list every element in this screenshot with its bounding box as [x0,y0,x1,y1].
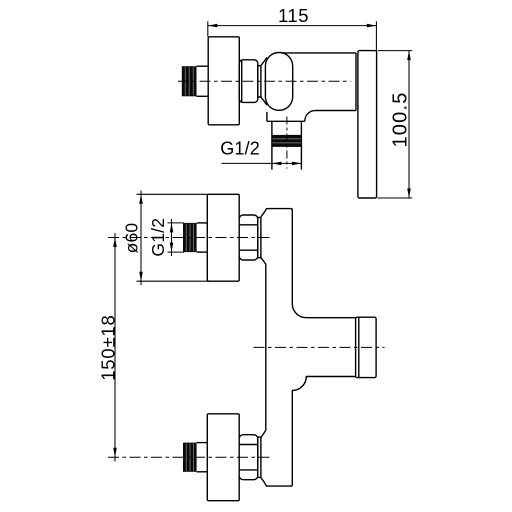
svg-text:G1/2: G1/2 [220,138,260,158]
dim 150+-18: dimension line [114,233,116,462]
side view: body top line [281,52,356,54]
dim G1/2 side view: left arrowhead [272,162,282,166]
front view: top union centerline [108,237,272,239]
dim 115: left extension line [207,21,209,36]
dim 100.5: bottom arrowhead [407,189,411,199]
dim G1/2 front view: bottom arrowhead [170,243,174,253]
side view: horizontal centerline [178,80,351,82]
svg-text:ø60: ø60 [122,223,142,254]
side view: inlet pipe [197,66,209,96]
side view: outlet boss bottom [267,120,305,122]
dim G1/2 side view: right arrowhead [292,162,302,166]
svg-text:115: 115 [278,5,309,26]
front view: flare above bottom union [261,430,266,437]
front view top union: flange disc [207,194,239,281]
front view bottom union: collar ring [258,437,261,477]
dim o60: bottom extension line [137,280,210,282]
dim G1/2 front view: top arrowhead [170,223,174,233]
dim 115: right extension line [375,21,377,50]
front view: main horizontal centerline [254,346,385,348]
side view: flare top [261,57,267,65]
dim 100.5: dimension line [408,51,410,198]
dim 115: dimension line [208,25,376,27]
dim 100.5: top extension line [378,50,413,52]
dim 100.5: top arrowhead [407,51,411,61]
dim o60: top arrowhead [139,194,143,204]
front view bottom union: hex nut [239,435,258,480]
front view bottom union: pipe [197,443,208,472]
front view: knob inner line [358,317,360,377]
dim G1/2 front view: dimension line [171,219,173,256]
side view: cartridge capsule [265,53,292,111]
side view: body bottom line [315,110,356,112]
side view: collar ring [258,66,261,97]
front view: body column and arm outline [261,209,356,318]
dim 115: left arrowhead [208,24,218,28]
front view top union: hex nut [239,215,258,260]
side view: hex nut [239,60,257,103]
svg-text:100.5: 100.5 [390,91,412,147]
side view: outlet cylinder left wall [271,121,273,169]
front view: column left edge [265,264,267,430]
dim G1/2 side view: leader line [222,162,302,164]
front view bottom union: flange disc [207,414,239,501]
side view: body right edge [355,53,357,111]
front view: knob (handle end) [356,317,377,377]
dim 100.5: bottom extension line [378,197,413,199]
front view bottom union: thread (black) [183,443,197,472]
side view: handle plate [358,51,377,198]
dim o60: dimension line [140,191,142,286]
side view: inlet thread (black) [182,66,197,96]
svg-text:150±18: 150±18 [97,314,118,380]
front view: flare below top union [261,258,266,265]
dim G1/2 front view: top extension line [168,222,185,224]
side view: wall flange disc [208,37,239,125]
dim 150+-18: bottom arrowhead [113,448,117,458]
dim 150+-18: top arrowhead [113,238,117,248]
dim o60: bottom arrowhead [139,272,143,282]
front view top union: pipe [197,223,208,252]
side view: boss fillet arc [305,111,315,122]
side view: outlet boss left edge [266,112,268,121]
svg-text:G1/2: G1/2 [148,218,168,257]
dim G1/2 front view: bottom extension line [168,251,185,253]
side view: outlet thread band (black) [272,135,302,147]
front view: arm bottom outline [261,377,356,487]
dim 115: right arrowhead [367,24,377,28]
side view: outlet centerline [286,117,288,169]
front view: bottom union centerline [108,456,272,458]
side view: flare bottom [261,97,267,105]
dim o60: top extension line [137,193,210,195]
front view top union: collar ring [258,217,261,257]
side view: outlet cylinder right wall [300,121,302,169]
front view top union: thread (black) [183,223,197,252]
